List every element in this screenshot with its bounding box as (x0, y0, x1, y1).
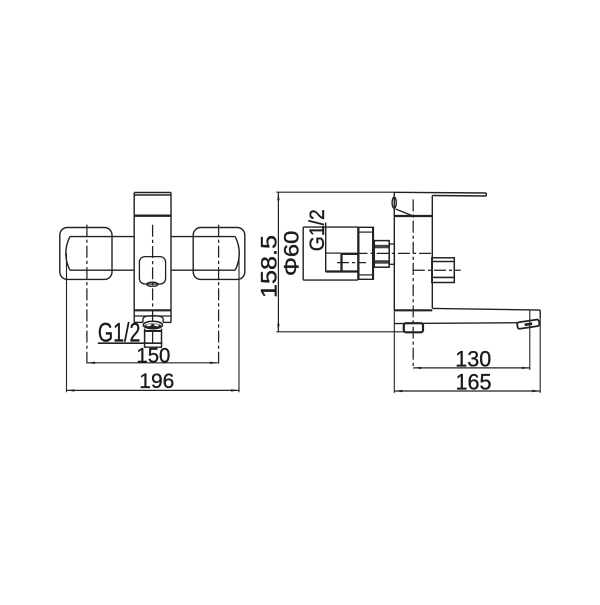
svg-text:130: 130 (455, 346, 491, 371)
svg-text:G1/2: G1/2 (305, 209, 329, 251)
svg-text:150: 150 (136, 344, 170, 368)
svg-text:158.5: 158.5 (256, 235, 281, 298)
svg-text:Φ60: Φ60 (279, 230, 303, 276)
svg-text:196: 196 (139, 368, 174, 393)
svg-text:G1/2: G1/2 (98, 317, 140, 347)
svg-text:165: 165 (456, 369, 492, 394)
